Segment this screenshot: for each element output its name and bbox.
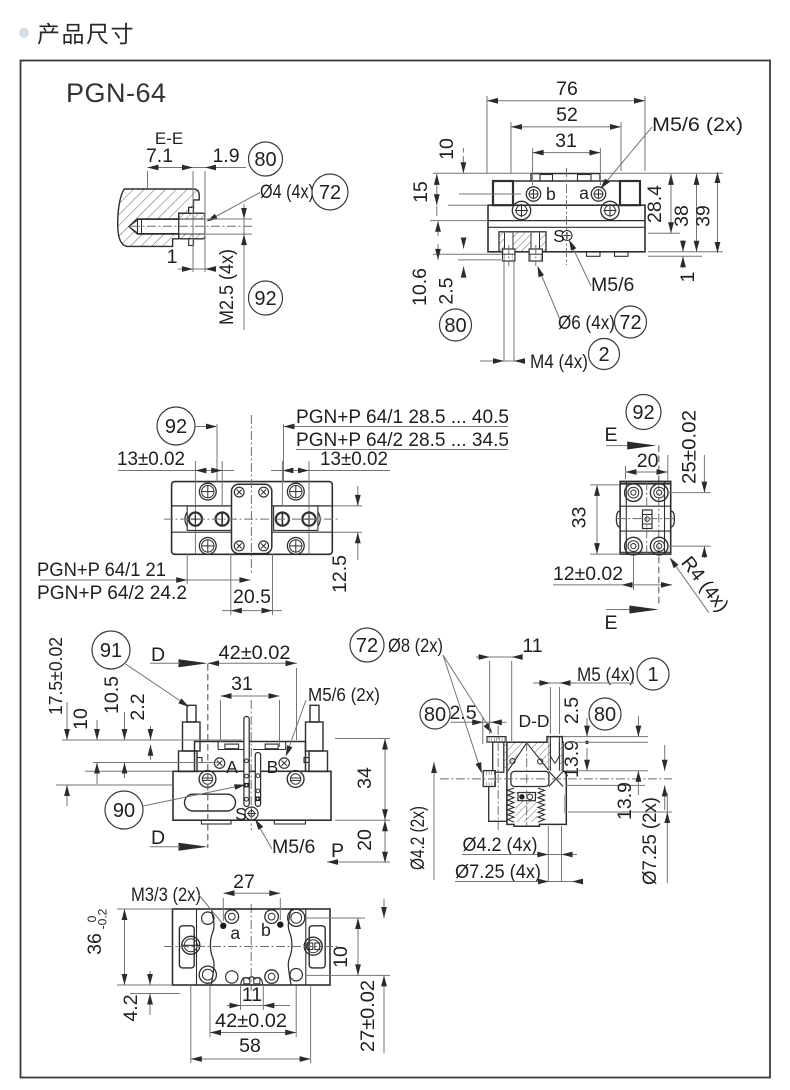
plate screw BR [259, 541, 269, 551]
sensor 91 left post [183, 722, 201, 751]
svg-text:11: 11 [242, 984, 262, 1006]
M3 hole b (black) [277, 921, 283, 927]
stroke range line 1 [284, 426, 509, 428]
svg-text:P: P [331, 840, 344, 862]
sensor left block [179, 751, 198, 772]
top view right ear [620, 181, 640, 205]
svg-text:10: 10 [70, 708, 92, 730]
DD boss thread right [560, 737, 563, 771]
svg-text:1: 1 [677, 272, 699, 283]
svg-text:M4 (4x): M4 (4x) [530, 351, 588, 373]
svg-text:PGN+P 64/1 28.5 ... 40.5: PGN+P 64/1 28.5 ... 40.5 [296, 406, 509, 428]
center strip left [244, 717, 249, 807]
plan side bump right [318, 512, 320, 526]
svg-text:80: 80 [594, 704, 616, 726]
svg-text:91: 91 [100, 640, 122, 662]
svg-text:13.9: 13.9 [614, 782, 636, 820]
S port screw [562, 231, 572, 241]
bottom left plate [179, 926, 194, 968]
big screw left [512, 201, 530, 219]
left extension lines [433, 172, 531, 174]
dim 1 [178, 268, 216, 270]
leader Ø8 to plug [443, 655, 481, 771]
section arrow E top [606, 445, 630, 447]
cut line D [207, 664, 209, 848]
DD spring zigzag left [508, 788, 515, 822]
leader M5/6 S [256, 821, 272, 849]
center widget side view [643, 510, 653, 529]
nipple centerlines [508, 245, 510, 266]
svg-text:7.1: 7.1 [146, 145, 173, 167]
balloon 72 DD [350, 628, 384, 662]
bottom right plate [309, 926, 325, 968]
top view main body outline [488, 205, 645, 252]
svg-text:Ø4 (4x): Ø4 (4x) [260, 181, 314, 203]
bottom right rod circle [304, 937, 322, 955]
DD boss thread left [547, 737, 550, 771]
DD right thread zone [563, 794, 566, 813]
M5/6 screw left (A) [214, 758, 224, 768]
svg-text:52: 52 [556, 104, 578, 126]
dim lines right of sleeve [206, 218, 252, 220]
mid band screw far-right [302, 513, 315, 526]
svg-text:a: a [579, 183, 589, 203]
svg-text:-0.2: -0.2 [96, 908, 110, 929]
sensor 91 right pin [310, 705, 319, 722]
E-E centering sleeve [179, 213, 205, 219]
svg-text:31: 31 [231, 673, 253, 695]
top view vent slot right [578, 175, 592, 182]
balloon 2 [589, 339, 620, 370]
svg-text:72: 72 [356, 635, 378, 657]
svg-text:2: 2 [598, 344, 609, 366]
feet right [615, 252, 629, 256]
dim 12.5 right [333, 505, 362, 507]
svg-text:1: 1 [647, 664, 658, 686]
stadium slot [185, 794, 236, 811]
svg-text:Ø7.25 (4x): Ø7.25 (4x) [455, 861, 541, 883]
dim M4 (4x) [480, 360, 524, 362]
leader M5/6 to S [570, 241, 592, 286]
nipple left [503, 249, 515, 261]
dim 52 [511, 126, 621, 128]
svg-text:58: 58 [239, 1035, 261, 1057]
svg-text:34: 34 [354, 767, 376, 789]
DD M5 hole below boss [551, 742, 560, 756]
section arrow D top [179, 659, 208, 667]
plan view corner screw BR [287, 538, 304, 555]
nipple right [529, 249, 542, 261]
DD bottom columns [547, 826, 549, 882]
E-E sleeve bottom tab [189, 239, 194, 246]
plan view corner screw TL [199, 483, 216, 500]
svg-text:13±0.02: 13±0.02 [320, 448, 388, 470]
svg-text:PGN-64: PGN-64 [66, 78, 167, 108]
svg-text:12±0.02: 12±0.02 [553, 563, 623, 585]
big slotted screw left [199, 771, 216, 788]
svg-text:2.5: 2.5 [436, 277, 458, 304]
mid band screw left slotted [216, 513, 229, 526]
svg-text:15: 15 [410, 181, 432, 203]
balloon 1 [637, 658, 669, 690]
svg-text:M3/3 (2x): M3/3 (2x) [131, 884, 201, 906]
svg-text:10: 10 [436, 138, 458, 160]
balloon 91 [92, 631, 130, 669]
leader M5/6 to screw a [601, 127, 652, 188]
DD knurled plug [483, 771, 495, 787]
dim 7.1 / 1.9 line [148, 167, 247, 169]
M4 extension columns [503, 261, 505, 361]
svg-text:PGN+P 64/2 24.2: PGN+P 64/2 24.2 [37, 582, 187, 604]
dim 76 [487, 100, 645, 102]
dim line 7.25 [455, 881, 577, 883]
dim 31 top [533, 152, 601, 154]
section arrow D bottom [179, 843, 208, 851]
DD right extension lines [563, 736, 648, 738]
jaw section outline [195, 742, 306, 772]
svg-text:90: 90 [113, 800, 135, 822]
svg-text:M5/6: M5/6 [591, 274, 634, 296]
manifold bore channels [505, 233, 514, 250]
svg-text:92: 92 [165, 416, 187, 438]
svg-text:33: 33 [569, 507, 591, 529]
side view mid band [620, 505, 671, 507]
sensor right block [309, 751, 328, 772]
svg-text:80: 80 [424, 704, 446, 726]
right extension lines [600, 172, 723, 174]
svg-text:10.5: 10.5 [101, 676, 123, 714]
bottom view inner verticals [196, 909, 198, 985]
DD sensor rect [518, 793, 535, 801]
dim line 21 [40, 579, 250, 581]
svg-text:31: 31 [555, 130, 577, 152]
plate screw TL [234, 487, 244, 497]
sensor 91 left pin [187, 705, 196, 722]
big screw right [601, 201, 619, 219]
DD upper hatch right of drill cone [529, 743, 548, 771]
svg-text:27: 27 [233, 871, 255, 893]
plan view column lines [194, 482, 196, 554]
leader 92 [195, 426, 216, 428]
svg-text:b: b [261, 920, 271, 940]
plan view left bracket [187, 506, 231, 530]
svg-text:27±0.02: 27±0.02 [357, 980, 379, 1052]
leader 90 to strip [143, 785, 244, 806]
svg-text:1: 1 [167, 246, 178, 268]
DD hatch strip between stem and body [504, 743, 507, 771]
plan side bump left [185, 512, 187, 526]
leader to nipple [538, 267, 561, 322]
side view inner verticals [625, 481, 627, 554]
plan top extension lines [216, 424, 218, 482]
svg-text:E: E [604, 612, 617, 634]
svg-text:PGN+P 64/1 21: PGN+P 64/1 21 [37, 559, 166, 581]
E-E screw shaft [138, 218, 179, 220]
svg-text:2.2: 2.2 [127, 693, 149, 720]
svg-text:42±0.02: 42±0.02 [215, 1010, 287, 1032]
top view raised center [531, 174, 600, 182]
side view centerlines [617, 518, 675, 520]
svg-text:a: a [230, 923, 240, 943]
svg-text:20: 20 [354, 829, 376, 851]
P reference line [327, 861, 390, 863]
DD centerlines [440, 778, 672, 780]
svg-text:10.6: 10.6 [409, 268, 431, 306]
svg-text:产品尺寸: 产品尺寸 [37, 21, 135, 47]
svg-text:Ø7.25 (2x): Ø7.25 (2x) [639, 797, 661, 885]
svg-text:Ø6 (4x): Ø6 (4x) [558, 312, 615, 334]
E-E sleeve top tab [189, 208, 194, 214]
leader Ø8 to cap [443, 655, 492, 731]
jaw slot left [225, 744, 239, 749]
bottom view centerlines [164, 946, 338, 948]
svg-text:39: 39 [693, 205, 715, 227]
balloon 92 [249, 281, 283, 315]
svg-text:2.5: 2.5 [561, 697, 583, 724]
mid band screw far-left [189, 513, 202, 526]
svg-text:10: 10 [330, 946, 352, 968]
DD upper hatch left of drill cone [507, 743, 525, 771]
svg-text:4.2: 4.2 [120, 994, 142, 1021]
svg-text:76: 76 [556, 78, 578, 100]
S screw front [245, 807, 258, 820]
svg-text:B: B [267, 757, 279, 777]
svg-text:S: S [553, 226, 565, 246]
side bump right [671, 511, 675, 527]
projection lines to bottom view [209, 985, 211, 1037]
side view body outline [620, 481, 671, 554]
E-E screw tip [129, 220, 138, 233]
svg-text:92: 92 [254, 288, 276, 310]
svg-text:25±0.02: 25±0.02 [679, 410, 701, 484]
front view centerline [250, 700, 252, 830]
E-E extension lines [147, 171, 149, 190]
svg-text:92: 92 [632, 402, 654, 424]
top view left ear [493, 181, 513, 205]
svg-text:E: E [604, 424, 617, 446]
front left extension lines [62, 739, 242, 741]
bottom screws top row [202, 912, 214, 924]
big slotted screw right [287, 771, 304, 788]
plate screw TR [259, 487, 269, 497]
plan view center plate [232, 484, 272, 553]
DD body outline [507, 737, 566, 827]
screw a [591, 187, 605, 201]
bottom right extension lines [305, 917, 365, 919]
view E-E section housing (hatched) [118, 189, 200, 246]
mid band screw right slotted [276, 513, 289, 526]
dim line 4.2 [462, 854, 577, 856]
center strip right [255, 753, 260, 807]
DD countersink X [549, 771, 563, 786]
cut line E-E [658, 446, 660, 482]
svg-text:38: 38 [671, 205, 693, 227]
bottom screws bottom row [199, 966, 216, 983]
balloon 80 [249, 142, 283, 176]
svg-text:13.9: 13.9 [561, 740, 583, 778]
leader 91 to pin [124, 663, 188, 706]
DD hole circles [510, 759, 515, 764]
front view foot right [274, 820, 305, 824]
DD spring zigzag right [538, 788, 545, 822]
balloon 72 top view [615, 306, 647, 338]
jaw slot right [265, 744, 278, 749]
plan view corner screw BL [199, 538, 216, 555]
balloon 80 DD right [589, 698, 621, 730]
DD left lower column [489, 787, 507, 822]
svg-text:12.5: 12.5 [329, 555, 351, 593]
svg-text:17.5±0.02: 17.5±0.02 [45, 637, 66, 715]
svg-text:20: 20 [637, 450, 659, 472]
svg-text:A: A [226, 757, 238, 777]
balloon 92 plan [157, 407, 195, 445]
section arrow E bottom [606, 609, 630, 611]
svg-text:Ø4.2 (2x): Ø4.2 (2x) [407, 806, 429, 870]
plate screw BL [234, 541, 244, 551]
svg-text:80: 80 [444, 315, 466, 337]
top view centerline [566, 168, 568, 265]
E-E centerline [131, 225, 253, 227]
svg-text:28.4: 28.4 [644, 185, 666, 223]
svg-text:Ø8 (2x): Ø8 (2x) [388, 635, 443, 657]
top view upper band [513, 180, 620, 182]
bottom spring scallops [241, 977, 263, 985]
DD spring hatch block [516, 792, 538, 822]
M3 hole a (black) [220, 923, 226, 929]
leader M5/6 front [286, 700, 306, 755]
bottom view outer body [173, 909, 331, 985]
balloon 80 top view [440, 309, 472, 341]
svg-text:80: 80 [254, 149, 276, 171]
svg-text:M5/6 (2x): M5/6 (2x) [308, 685, 380, 705]
svg-text:b: b [546, 184, 556, 204]
svg-text:11: 11 [522, 635, 542, 657]
svg-text:M5/6: M5/6 [272, 836, 315, 858]
DD left screw cap [487, 737, 506, 743]
plan view centerlines [164, 518, 339, 520]
plan view mid band lines [172, 505, 333, 507]
sensor 91 right post [306, 722, 324, 751]
svg-text:1.9: 1.9 [212, 145, 239, 167]
svg-text:Ø4.2 (4x): Ø4.2 (4x) [463, 834, 538, 856]
socket screw TL side [625, 484, 643, 502]
leader M3 to hole [199, 895, 222, 923]
DD left screw stem [493, 742, 504, 772]
socket screw TR side [650, 484, 668, 502]
DD drill cone V [508, 743, 527, 771]
balloon 92 side view [626, 395, 661, 430]
svg-text:D-D: D-D [518, 711, 549, 731]
M5/6 screw right (B) [279, 758, 289, 768]
svg-text:13±0.02: 13±0.02 [117, 448, 185, 470]
front right extension lines [335, 738, 390, 740]
svg-text:M5/6 (2x): M5/6 (2x) [652, 114, 743, 136]
plan view corner screw TR [287, 483, 304, 500]
bottom left rod circle [182, 936, 200, 954]
dim M5 line [533, 682, 634, 684]
svg-text:S: S [235, 804, 247, 824]
bottom jaw curve right [288, 909, 292, 985]
side bump left [616, 511, 620, 527]
front view foot left [201, 820, 231, 824]
svg-text:72: 72 [319, 182, 341, 204]
page title bullet [19, 28, 29, 38]
plan view right bracket [274, 506, 318, 530]
stroke range line 2 [296, 449, 508, 451]
svg-text:42±0.02: 42±0.02 [219, 642, 291, 664]
balloon 90 [105, 791, 143, 829]
top view vent slot left [540, 175, 553, 182]
svg-text:M2.5 (4x): M2.5 (4x) [216, 249, 238, 325]
hatched manifold block [499, 232, 546, 252]
bottom extension lines plan [186, 554, 188, 584]
bottom jaw curve left [210, 909, 214, 985]
DD bore (horizontal hole) [511, 771, 549, 786]
socket screw BR side [650, 537, 668, 555]
plan view outer body [172, 482, 333, 555]
svg-text:D: D [151, 644, 165, 666]
leader to sleeve [208, 193, 261, 222]
front view main block [173, 771, 331, 820]
feet left [587, 252, 601, 256]
screw b [526, 187, 540, 201]
svg-text:D: D [151, 827, 165, 849]
DD dim stems right [637, 716, 639, 737]
svg-text:20.5: 20.5 [233, 586, 271, 608]
balloon 72 [312, 174, 348, 210]
socket screw BL side [625, 537, 643, 555]
svg-text:72: 72 [619, 312, 641, 334]
balloon 80 DD left [420, 699, 450, 729]
svg-text:36: 36 [84, 933, 106, 955]
strip detail circles [245, 759, 249, 763]
leader R4 [671, 559, 709, 613]
